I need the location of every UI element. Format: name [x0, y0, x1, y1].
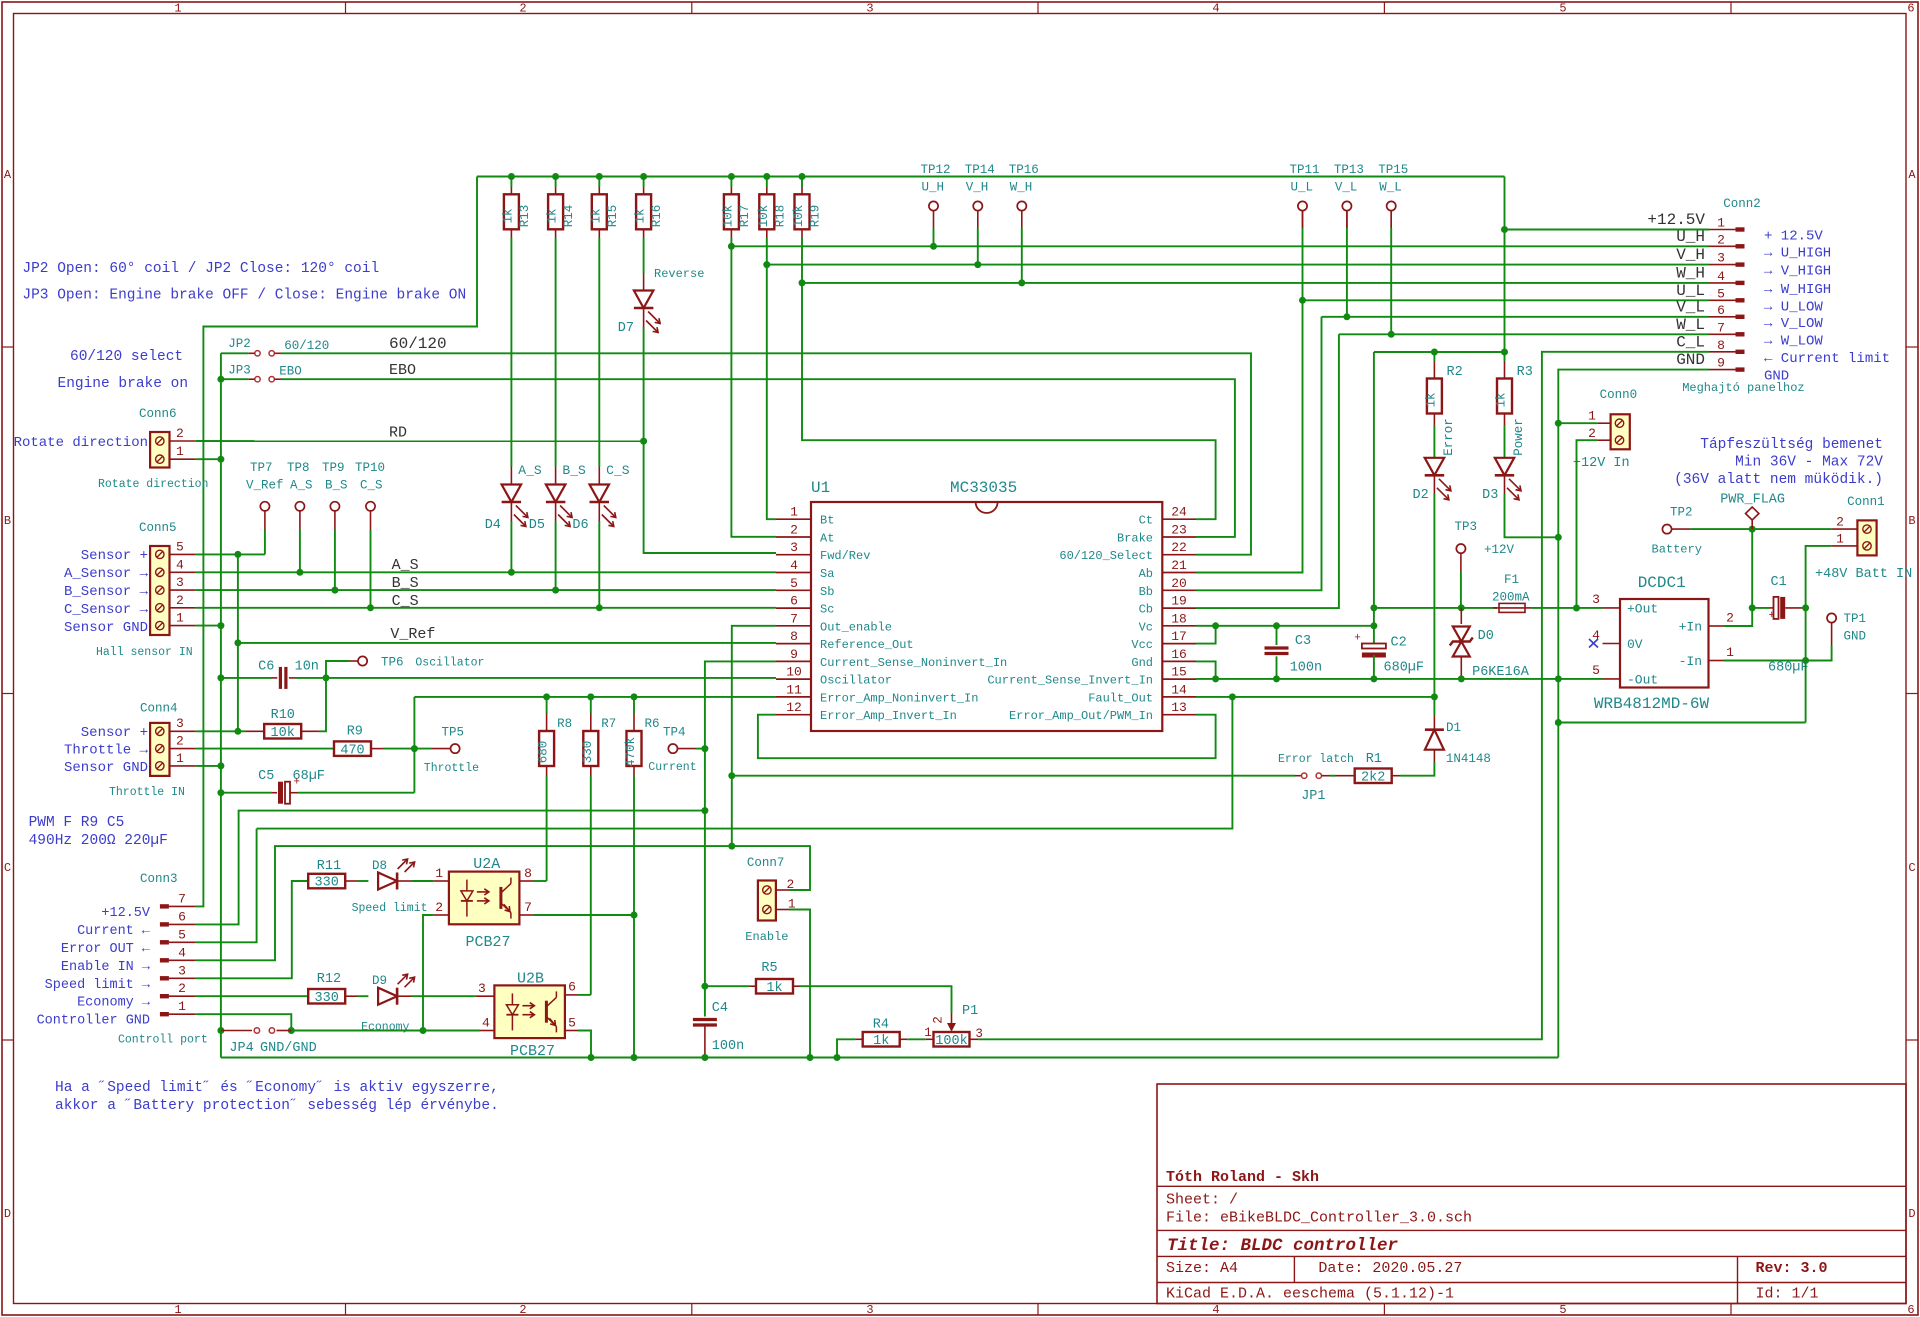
svg-text:Cb: Cb	[1139, 603, 1153, 617]
svg-text:5: 5	[176, 539, 184, 554]
U2B pin5	[564, 1030, 578, 1032]
wire W_L net	[1390, 211, 1392, 228]
svg-text:P6KE16A: P6KE16A	[1472, 665, 1530, 680]
svg-text:R8: R8	[557, 717, 572, 731]
svg-text:4: 4	[176, 557, 184, 572]
svg-text:2k2: 2k2	[1361, 771, 1385, 786]
wire R1 to D1	[1400, 762, 1434, 776]
Conn2 pin 5 U_L	[1709, 299, 1739, 301]
wire Conn0 pin2 to +12V line	[1577, 440, 1598, 608]
U1 pin 24 Ct	[1162, 518, 1196, 520]
resistor R7 330	[587, 693, 594, 700]
resistor R15 1k	[596, 173, 603, 180]
wire V_L net	[1346, 211, 1348, 228]
svg-text:R16: R16	[650, 205, 664, 228]
svg-text:B_S: B_S	[325, 479, 348, 493]
svg-text:Current_Sense_Invert_In: Current_Sense_Invert_In	[987, 674, 1153, 688]
svg-text:680µF: 680µF	[1384, 661, 1425, 676]
svg-text:Sc: Sc	[820, 603, 834, 617]
DCDC pin3 +Out	[1603, 607, 1621, 609]
svg-text:Size: A4: Size: A4	[1166, 1260, 1238, 1277]
svg-text:C_S: C_S	[392, 593, 419, 610]
U1 pin 11 Error_Amp_Noninvert_In	[776, 696, 811, 698]
U1 pin 15 Current_Sense_Invert_In	[1162, 678, 1196, 680]
U1 pin 22 60/120_Select	[1162, 554, 1196, 556]
svg-text:U_L: U_L	[1291, 181, 1314, 195]
svg-text:Throttle →: Throttle →	[64, 743, 149, 759]
svg-text:D1: D1	[1446, 721, 1461, 735]
svg-text:Error OUT ←: Error OUT ←	[61, 942, 151, 957]
svg-text:3: 3	[1717, 251, 1725, 266]
svg-text:D0: D0	[1478, 629, 1494, 644]
svg-text:14: 14	[1171, 682, 1187, 697]
svg-text:TP10: TP10	[355, 461, 385, 475]
wire D3 cathode to GND	[1504, 475, 1506, 494]
svg-text:R4: R4	[873, 1018, 889, 1033]
svg-text:D6: D6	[572, 518, 588, 533]
svg-text:TP13: TP13	[1334, 163, 1364, 177]
svg-text:C5: C5	[258, 769, 274, 784]
wire P1 pin3 to C_L	[970, 1038, 979, 1040]
svg-text:+Out: +Out	[1627, 602, 1658, 617]
svg-text:2: 2	[519, 1303, 526, 1317]
svg-text:GND: GND	[1676, 351, 1705, 369]
svg-text:Sheet: /: Sheet: /	[1166, 1192, 1238, 1209]
svg-text:Sensor GND: Sensor GND	[64, 760, 148, 776]
Conn2 pin 3 V_H	[1709, 264, 1739, 266]
svg-text:+: +	[1354, 633, 1361, 645]
svg-text:6: 6	[178, 909, 186, 924]
U1 pin 8 Reference_Out	[776, 643, 811, 645]
svg-text:U_H: U_H	[922, 181, 945, 195]
wire D2 cathode to fault	[1433, 475, 1435, 494]
svg-text:V_L: V_L	[1335, 181, 1358, 195]
svg-text:Rotate direction: Rotate direction	[98, 478, 208, 491]
svg-text:+48V Batt IN: +48V Batt IN	[1815, 567, 1912, 582]
svg-text:330: 330	[315, 991, 339, 1006]
svg-text:2: 2	[790, 523, 798, 538]
svg-text:Sensor GND: Sensor GND	[64, 620, 148, 636]
wire U_H net	[933, 228, 935, 246]
svg-text:24: 24	[1171, 505, 1187, 520]
wire Conn3 pin1 to JP4	[196, 1014, 291, 1030]
svg-text:Speed limit: Speed limit	[352, 902, 428, 915]
wire Conn6 pin1 to GND	[196, 458, 221, 460]
svg-text:W_L: W_L	[1379, 181, 1402, 195]
wire Gnd pin16 to GND line	[1196, 661, 1216, 679]
svg-text:2: 2	[176, 734, 184, 749]
svg-text:Economy: Economy	[361, 1021, 409, 1034]
svg-text:3: 3	[176, 716, 184, 731]
svg-text:GND: GND	[1844, 630, 1867, 644]
svg-text:Min 36V - Max 72V: Min 36V - Max 72V	[1735, 455, 1883, 471]
wire D4 cathode to A_S	[510, 502, 512, 521]
svg-text:Rev: 3.0: Rev: 3.0	[1756, 1260, 1828, 1277]
svg-text:3: 3	[866, 2, 873, 16]
svg-text:2: 2	[1717, 232, 1725, 247]
wire error amp noninvert line	[414, 696, 776, 698]
svg-text:1: 1	[1588, 409, 1596, 424]
svg-text:D8: D8	[372, 859, 387, 873]
svg-text:TP3: TP3	[1455, 520, 1478, 534]
svg-text:8: 8	[1717, 338, 1725, 353]
svg-text:B: B	[1908, 514, 1915, 528]
svg-text:9: 9	[790, 647, 798, 662]
svg-text:C1: C1	[1771, 575, 1787, 590]
svg-text:1: 1	[435, 866, 443, 881]
LED D3 Power	[1495, 458, 1514, 476]
DCDC converter DCDC1 WRB4812MD-6W	[1620, 599, 1709, 688]
wire battery minus bottom	[1558, 722, 1805, 724]
LED D4	[502, 485, 521, 503]
svg-text:Enable IN →: Enable IN →	[61, 960, 151, 975]
wire +12.5V right drop	[1504, 177, 1506, 353]
svg-text:1k: 1k	[873, 1034, 889, 1049]
svg-text:Brake: Brake	[1117, 532, 1153, 546]
svg-text:WRB4812MD-6W: WRB4812MD-6W	[1594, 695, 1710, 713]
wire U2A pin2 to GND	[423, 915, 433, 1031]
wire V_Ref vertical	[237, 554, 239, 731]
svg-text:D4: D4	[485, 518, 501, 533]
svg-text:13: 13	[1171, 700, 1187, 715]
svg-text:4: 4	[1717, 269, 1725, 284]
svg-text:JP4: JP4	[229, 1041, 253, 1056]
wire RD from Conn6 pin2 to D7	[196, 440, 644, 442]
svg-text:1k: 1k	[634, 208, 648, 223]
svg-text:1: 1	[924, 1026, 932, 1040]
svg-text:U2A: U2A	[473, 856, 500, 873]
svg-text:Bt: Bt	[820, 514, 834, 528]
svg-text:R15: R15	[606, 205, 620, 228]
svg-text:11: 11	[786, 682, 802, 697]
svg-text:1: 1	[176, 611, 184, 626]
svg-text:B: B	[4, 514, 11, 528]
svg-text:Speed limit →: Speed limit →	[45, 978, 151, 993]
resistor R6 470k	[631, 693, 638, 700]
svg-text:3: 3	[866, 1303, 873, 1317]
Conn3 pin 7	[160, 904, 169, 908]
svg-text:Sensor +: Sensor +	[81, 548, 148, 564]
svg-text:1k: 1k	[766, 981, 782, 996]
svg-text:JP3 Open: Engine brake OFF / C: JP3 Open: Engine brake OFF / Close: Engi…	[22, 288, 466, 304]
svg-text:470: 470	[340, 743, 364, 758]
Conn2 pin 7 W_L	[1709, 333, 1739, 335]
svg-text:D5: D5	[529, 518, 545, 533]
svg-text:7: 7	[178, 891, 186, 906]
svg-text:Throttle IN: Throttle IN	[109, 786, 185, 799]
svg-text:2: 2	[1726, 611, 1734, 626]
wire hall pullup to LED	[598, 238, 600, 467]
svg-text:W_H: W_H	[1676, 264, 1705, 282]
svg-text:5: 5	[568, 1016, 576, 1031]
U1 pin 17 Vcc	[1162, 643, 1196, 645]
jumper JP4 GND/GND	[217, 1027, 224, 1034]
svg-text:→ V_LOW: → V_LOW	[1764, 316, 1823, 332]
wire +12.5V to Conn2 pin 1	[1505, 229, 1710, 231]
wire U_L net	[1302, 211, 1304, 228]
svg-text:10k: 10k	[792, 205, 806, 228]
svg-text:19: 19	[1171, 594, 1187, 609]
wire battery + line TP2 PWR_FLAG Conn1 pin2	[1662, 525, 1671, 534]
DCDC pin5 -Out	[1603, 678, 1621, 680]
wire V_H net	[977, 228, 979, 265]
svg-text:D: D	[1908, 1207, 1915, 1221]
svg-text:C2: C2	[1391, 636, 1407, 651]
svg-text:6: 6	[790, 594, 798, 609]
svg-text:PCB27: PCB27	[466, 934, 511, 951]
svg-text:5: 5	[1559, 1303, 1566, 1317]
svg-text:8: 8	[790, 629, 798, 644]
svg-text:1: 1	[790, 505, 798, 520]
svg-text:Error_Amp_Invert_In: Error_Amp_Invert_In	[820, 709, 957, 723]
svg-text:Battery: Battery	[1652, 543, 1702, 557]
svg-text:1: 1	[1726, 645, 1734, 660]
svg-text:Ha a ˝Speed limit˝ és ˝Economy: Ha a ˝Speed limit˝ és ˝Economy˝ is aktiv…	[55, 1080, 499, 1096]
svg-text:680µF: 680µF	[1768, 661, 1809, 676]
svg-text:1k: 1k	[546, 208, 560, 223]
svg-text:10: 10	[786, 665, 802, 680]
resistor R19 10k	[799, 173, 806, 180]
svg-text:D7: D7	[618, 321, 634, 336]
svg-text:16: 16	[1171, 647, 1187, 662]
U1 pin 18 Vc	[1162, 625, 1196, 627]
wire Conn5 pin5 to TP7/V_Ref	[196, 553, 265, 555]
svg-text:Ct: Ct	[1139, 514, 1153, 528]
DCDC pin1 -In	[1709, 660, 1725, 662]
IC U1 MC33035 body	[811, 502, 1162, 731]
svg-text:+: +	[294, 777, 301, 789]
svg-text:1: 1	[176, 444, 184, 459]
svg-text:→ W_HIGH: → W_HIGH	[1764, 282, 1831, 298]
svg-text:-Out: -Out	[1627, 673, 1658, 688]
wire Speed limit riser Conn3 pin3	[196, 881, 308, 978]
svg-text:Reverse: Reverse	[654, 267, 704, 281]
svg-text:JP3: JP3	[228, 364, 251, 378]
svg-text:Oscillator: Oscillator	[415, 657, 484, 670]
svg-text:R5: R5	[761, 961, 777, 976]
svg-text:R19: R19	[809, 205, 823, 228]
svg-text:1: 1	[174, 2, 181, 16]
svg-text:Enable: Enable	[745, 930, 788, 944]
svg-text:R2: R2	[1447, 365, 1463, 380]
U1 pin 4 Sa	[776, 572, 811, 574]
svg-text:C3: C3	[1295, 634, 1311, 649]
svg-text:200mA: 200mA	[1492, 591, 1530, 605]
svg-text:PWM F R9 C5: PWM F R9 C5	[29, 815, 125, 831]
U2B pin3	[476, 995, 495, 997]
wire oscillator net to U1 pin10	[295, 677, 776, 679]
svg-text:680: 680	[537, 741, 551, 764]
svg-text:Date: 2020.05.27: Date: 2020.05.27	[1318, 1260, 1462, 1277]
U2B pin6	[564, 994, 578, 996]
svg-text:1k: 1k	[1424, 392, 1438, 407]
svg-text:W_L: W_L	[1676, 316, 1705, 334]
wire Vcc pin17 tie	[1196, 626, 1216, 644]
svg-text:Error_Amp_Out/PWM_In: Error_Amp_Out/PWM_In	[1009, 709, 1153, 723]
wire R6 to U2A pin7 / GND	[633, 776, 635, 1058]
TVS diode D0 P6KE16A	[1460, 608, 1462, 624]
U2A pin1	[433, 880, 449, 882]
svg-text:2: 2	[1588, 426, 1596, 441]
svg-text:Gnd: Gnd	[1131, 656, 1153, 670]
wire Conn1 pin1 to battery minus	[1806, 546, 1832, 723]
svg-text:TP5: TP5	[442, 726, 465, 740]
svg-text:B_Sensor →: B_Sensor →	[64, 584, 149, 600]
svg-text:← Current limit: ← Current limit	[1764, 351, 1890, 367]
svg-text:60/120 select: 60/120 select	[70, 349, 183, 365]
svg-text:5: 5	[1717, 286, 1725, 301]
wire error out riser	[257, 697, 1233, 829]
wire throttle node to U1 pin11 line and C5	[413, 697, 415, 793]
svg-text:330: 330	[581, 741, 595, 764]
wire Enable line Conn3 pin4	[196, 846, 810, 960]
svg-text:U1: U1	[811, 479, 830, 497]
svg-text:12: 12	[786, 700, 802, 715]
resistor R16 1k	[640, 173, 647, 180]
svg-text:1: 1	[1717, 216, 1725, 231]
Conn3 pin 4	[160, 958, 169, 962]
svg-text:60/120: 60/120	[389, 335, 447, 353]
wire R16 down to D7	[643, 238, 645, 273]
wire hall pullup to LED	[510, 238, 512, 467]
svg-text:Rotate direction: Rotate direction	[14, 435, 148, 451]
resistor R17 10k	[728, 173, 735, 180]
LED D5	[546, 485, 566, 503]
wire battery + vertical to C1	[1751, 529, 1753, 608]
wire EBO to U1 pin23 Brake	[281, 379, 1235, 537]
svg-text:4: 4	[1212, 2, 1219, 16]
svg-text:3: 3	[790, 540, 798, 555]
resistor R14 1k	[552, 173, 559, 180]
svg-text:akkor a ˝Battery protection˝ s: akkor a ˝Battery protection˝ sebesség lé…	[55, 1098, 499, 1114]
svg-text:1N4148: 1N4148	[1446, 752, 1491, 766]
svg-text:Conn6: Conn6	[139, 407, 177, 421]
svg-text:Conn7: Conn7	[747, 856, 785, 870]
svg-text:Tóth Roland - Skh: Tóth Roland - Skh	[1166, 1169, 1319, 1186]
svg-text:Conn4: Conn4	[140, 702, 178, 716]
svg-text:2: 2	[176, 593, 184, 608]
wire 60/120 to U1 pin22	[281, 353, 1251, 554]
svg-text:3: 3	[478, 981, 486, 996]
svg-text:R14: R14	[562, 205, 576, 228]
svg-text:PWR_FLAG: PWR_FLAG	[1720, 493, 1785, 508]
wire GND net line pin15	[1196, 678, 1603, 680]
svg-text:2: 2	[519, 2, 526, 16]
svg-text:R17: R17	[738, 205, 752, 228]
svg-text:TP12: TP12	[921, 163, 951, 177]
svg-text:R6: R6	[645, 717, 660, 731]
U2A pin2	[433, 914, 449, 916]
svg-text:Power: Power	[1512, 418, 1526, 456]
testpoint TP4 current	[701, 745, 708, 752]
svg-text:TP7: TP7	[250, 461, 273, 475]
svg-text:D9: D9	[372, 974, 387, 988]
svg-text:15: 15	[1171, 665, 1187, 680]
U1 pin 9 Current_Sense_Noninvert_In	[776, 660, 811, 662]
svg-text:3: 3	[176, 575, 184, 590]
U1 pin 7 Out_enable	[776, 625, 811, 627]
svg-text:RD: RD	[389, 425, 407, 442]
svg-text:W_H: W_H	[1010, 181, 1033, 195]
Conn2 pin 9 GND	[1709, 369, 1739, 371]
svg-text:EBO: EBO	[279, 365, 302, 379]
svg-text:+12.5V: +12.5V	[101, 906, 151, 921]
svg-text:+In: +In	[1679, 620, 1702, 635]
svg-text:-In: -In	[1679, 654, 1702, 669]
svg-text:D: D	[4, 1207, 11, 1221]
wire -In line	[1724, 646, 1832, 661]
Conn3 pin 3	[160, 976, 169, 980]
svg-text:Conn2: Conn2	[1723, 197, 1761, 211]
svg-text:+12V In: +12V In	[1573, 456, 1630, 471]
wire Conn5 pin1 to GND	[196, 625, 221, 627]
svg-text:5: 5	[1592, 663, 1600, 678]
svg-text:5: 5	[790, 576, 798, 591]
svg-text:C_S: C_S	[606, 463, 630, 478]
svg-text:6: 6	[1717, 303, 1725, 318]
svg-text:V_Ref: V_Ref	[246, 479, 284, 493]
svg-text:A_S: A_S	[518, 463, 542, 478]
svg-text:U_H: U_H	[1676, 228, 1705, 246]
wire hall pullup to LED	[555, 238, 557, 467]
svg-text:100k: 100k	[935, 1034, 967, 1049]
LED D7 Reverse	[634, 291, 654, 309]
svg-text:60/120_Select: 60/120_Select	[1059, 549, 1153, 563]
wire R7 to U2B pin6	[590, 776, 592, 995]
svg-text:7: 7	[1717, 320, 1725, 335]
svg-text:1: 1	[174, 1303, 181, 1317]
svg-text:F1: F1	[1504, 573, 1519, 587]
svg-text:Conn0: Conn0	[1600, 388, 1638, 402]
svg-text:Error latch: Error latch	[1278, 753, 1354, 766]
svg-text:TP4: TP4	[663, 726, 686, 740]
svg-text:Current_Sense_Noninvert_In: Current_Sense_Noninvert_In	[820, 656, 1007, 670]
wire R5 to P1 wiper	[800, 986, 952, 1013]
svg-text:Hall sensor IN: Hall sensor IN	[96, 646, 193, 659]
svg-text:C: C	[1908, 861, 1915, 875]
wire Conn2 pin9 GND	[1558, 370, 1709, 1058]
svg-text:C6: C6	[258, 660, 274, 675]
Conn2 pin 2 U_H	[1709, 245, 1739, 247]
svg-text:V_H: V_H	[1676, 246, 1705, 264]
svg-text:4: 4	[178, 945, 186, 960]
svg-text:R9: R9	[347, 725, 363, 740]
svg-text:Conn3: Conn3	[140, 872, 178, 886]
U1 pin 20 Bb	[1162, 589, 1196, 591]
svg-text:Engine brake on: Engine brake on	[58, 376, 189, 392]
svg-text:2: 2	[932, 1016, 946, 1024]
svg-text:Error: Error	[1442, 418, 1456, 456]
svg-text:A: A	[1908, 168, 1916, 182]
U2A pin7	[519, 914, 534, 916]
svg-text:8: 8	[524, 866, 532, 881]
svg-text:Sb: Sb	[820, 585, 834, 599]
testpoint TP5 throttle	[414, 748, 432, 750]
svg-text:5: 5	[178, 927, 186, 942]
svg-text:KiCad E.D.A. eeschema (5.1.12: KiCad E.D.A. eeschema (5.1.12)-1	[1166, 1286, 1454, 1303]
svg-text:D2: D2	[1412, 488, 1428, 503]
svg-text:Fault_Out: Fault_Out	[1088, 691, 1153, 705]
testpoint TP1 GND	[1827, 613, 1836, 622]
svg-text:R18: R18	[773, 205, 787, 228]
svg-text:10k: 10k	[721, 205, 735, 228]
svg-text:Controll port: Controll port	[118, 1034, 208, 1047]
wire Vc pin18 line	[1196, 625, 1374, 627]
U1 pin 23 Brake	[1162, 536, 1196, 538]
svg-text:C_L: C_L	[1676, 333, 1705, 351]
svg-text:Meghajtó panelhoz: Meghajtó panelhoz	[1682, 381, 1804, 395]
svg-text:+12V: +12V	[1484, 543, 1515, 557]
